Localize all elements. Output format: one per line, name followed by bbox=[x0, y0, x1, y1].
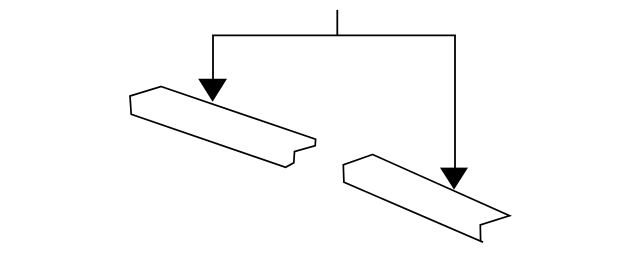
part: left sill plate outline bbox=[130, 87, 316, 168]
wire: left drop bbox=[212, 35, 214, 82]
part: right sill plate outline bbox=[343, 155, 509, 243]
wire: top vertical leader bbox=[336, 10, 338, 36]
arrowhead left bbox=[198, 79, 227, 102]
arrowhead right bbox=[440, 168, 468, 190]
wire: horizontal branch bbox=[212, 34, 456, 36]
wire: right drop bbox=[454, 35, 456, 171]
